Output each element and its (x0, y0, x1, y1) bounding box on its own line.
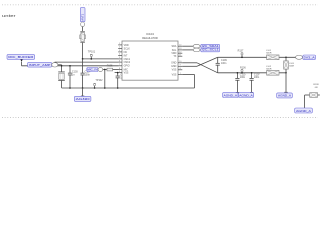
svg-text:AGND_A: AGND_A (239, 93, 253, 97)
svg-text:REGULATOR: REGULATOR (142, 36, 158, 40)
svg-text:100n: 100n (240, 76, 246, 79)
svg-text:TX: TX (173, 55, 176, 58)
svg-text:GPIO: GPIO (124, 65, 130, 68)
svg-text:OSC2: OSC2 (124, 61, 131, 64)
svg-text:TP102: TP102 (95, 79, 103, 82)
svg-text:600R: 600R (266, 69, 272, 71)
svg-text:100n: 100n (221, 62, 227, 65)
svg-text:MIC_BUFFER: MIC_BUFFER (8, 55, 33, 59)
svg-text:VSS: VSS (124, 72, 129, 75)
svg-text:R136: R136 (240, 66, 246, 69)
svg-text:I2C_SDA1: I2C_SDA1 (202, 44, 220, 48)
svg-text:100n: 100n (254, 76, 260, 79)
svg-text:VSS: VSS (172, 69, 177, 72)
svg-text:ANT1: ANT1 (81, 13, 85, 20)
svg-text:600R: 600R (266, 53, 272, 55)
svg-text:600R: 600R (289, 65, 294, 67)
svg-text:3V3_A: 3V3_A (304, 55, 315, 59)
svg-text:AGND_A: AGND_A (296, 109, 311, 113)
svg-text:100n: 100n (85, 74, 91, 77)
svg-text:R105: R105 (107, 65, 113, 68)
svg-text:AGND_A: AGND_A (278, 94, 291, 98)
svg-text:unter: unter (2, 14, 17, 18)
svg-text:AGND: AGND (76, 97, 90, 101)
svg-text:I2C_SCL1: I2C_SCL1 (202, 48, 220, 52)
svg-text:SDA: SDA (171, 45, 176, 48)
svg-text:MIC_IN: MIC_IN (87, 68, 97, 71)
svg-text:AGND_A: AGND_A (224, 93, 238, 97)
svg-text:R137: R137 (238, 49, 244, 52)
svg-text:INPUT_AMP: INPUT_AMP (29, 63, 51, 67)
svg-text:TP101: TP101 (88, 50, 96, 53)
svg-text:VSS: VSS (172, 73, 177, 76)
svg-text:0R: 0R (315, 87, 318, 89)
